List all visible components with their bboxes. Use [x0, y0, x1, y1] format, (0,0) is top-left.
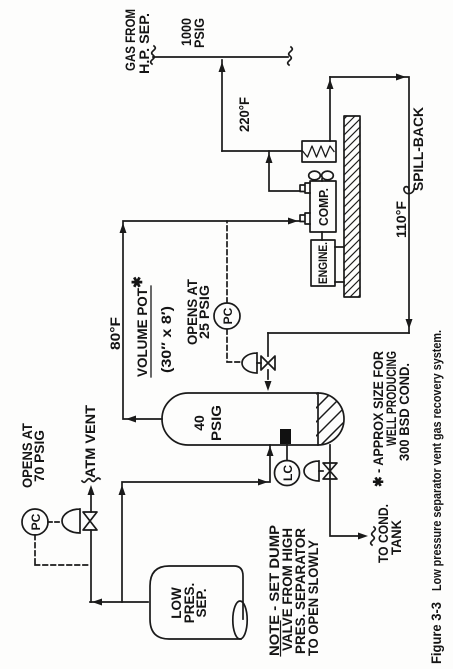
svg-text:40: 40	[191, 415, 207, 431]
shaft engine to compressor	[321, 232, 323, 240]
wire cooler outlet	[329, 77, 331, 141]
equipment ENGINE box	[311, 240, 335, 286]
svg-text:SPILL-BACK: SPILL-BACK	[411, 107, 426, 191]
equipment COMP box	[310, 181, 336, 232]
arrow down on spill-back drop	[396, 74, 406, 81]
wire gas line from riser to drum inlet	[122, 445, 270, 602]
svg-text:Figure 3-3: Figure 3-3	[429, 602, 444, 664]
arrow down into compressor suction	[288, 218, 298, 225]
wire vent line after valve	[90, 495, 92, 512]
wire LC1 stem to nozzle	[286, 444, 288, 461]
dashed signal PC2 to spill valve	[227, 330, 241, 363]
arrow right on gas line top run	[119, 485, 126, 495]
svg-text:220°F: 220°F	[237, 97, 252, 132]
svg-text:PC: PC	[221, 307, 235, 324]
actuator dome on PV1	[62, 509, 80, 533]
wire to HP header	[221, 60, 223, 151]
break squiggle on vent outlet	[82, 478, 100, 482]
svg-text:TANK: TANK	[389, 520, 404, 555]
valve PV2 body	[261, 356, 275, 370]
arrow vent to atmosphere	[88, 485, 95, 495]
wire spill-back run	[330, 77, 409, 333]
vessel V2 head chord	[317, 393, 319, 445]
wire cooler feed riser	[222, 150, 302, 152]
instrument PC2 pressure controller circle	[214, 303, 240, 329]
dashed signal PC1 to vent pipe tap	[35, 535, 90, 565]
arrow down to condensate tank	[358, 533, 368, 540]
arrow right before corner of volume pot loop	[120, 223, 127, 233]
header line to HP SEP	[153, 56, 288, 58]
wire spill riser	[268, 332, 409, 334]
wire spill line into drum	[267, 333, 269, 379]
engine mounting legs	[335, 247, 344, 282]
svg-text:TO OPEN SLOWLY: TO OPEN SLOWLY	[306, 540, 321, 656]
svg-text:Low pressure separator vent ga: Low pressure separator vent gas recovery…	[429, 330, 444, 591]
wire condensate dump line	[330, 445, 358, 536]
svg-text:PC: PC	[29, 513, 43, 530]
svg-text:✱: ✱	[129, 276, 145, 288]
valve LV1 stem	[319, 470, 323, 472]
vessel V1 bottom rim ellipse	[233, 601, 247, 639]
svg-text:ENGINE.: ENGINE.	[318, 242, 330, 284]
svg-text:(30″ x 8′): (30″ x 8′)	[159, 306, 174, 373]
wire volume pot loop: drum top to compressor suction	[123, 221, 300, 419]
svg-text:COMP.: COMP.	[317, 188, 331, 226]
svg-text:25 PSIG: 25 PSIG	[197, 285, 212, 339]
cooler coil zigzag	[303, 146, 334, 157]
valve LV1 body	[323, 463, 337, 479]
svg-text:LC: LC	[281, 465, 295, 481]
svg-text:80°F: 80°F	[108, 317, 123, 350]
instrument LC1 level controller circle	[275, 461, 300, 486]
vessel V1 LOW PRES SEP shell	[150, 566, 243, 639]
vessel V2 hatched bottom head	[300, 378, 360, 464]
instrument PC1 pressure controller circle	[22, 509, 48, 535]
valve LV1 dump valve actuator dome	[304, 461, 319, 481]
break squiggle bottom of header	[288, 47, 293, 65]
wire vent line to valve	[90, 530, 92, 602]
svg-text:PSIG: PSIG	[208, 405, 224, 441]
break squiggle on condensate line	[371, 527, 376, 545]
valve PV2 spill valve actuator dome	[242, 353, 257, 373]
svg-text:VOLUME POT: VOLUME POT	[135, 287, 150, 377]
underline of NOTE	[280, 621, 282, 656]
svg-text:PSIG: PSIG	[192, 18, 207, 48]
skid ground hatched bar	[344, 116, 360, 297]
valve PV2 stem	[257, 362, 261, 364]
break squiggle top of header	[151, 46, 156, 64]
arrow right into header	[219, 62, 226, 72]
svg-text:H.P. SEP.: H.P. SEP.	[137, 13, 152, 74]
compressor discharge wire to cooler feed	[269, 151, 300, 191]
cooler fan blades	[321, 179, 323, 181]
vessel V2 40 PSIG drum shell	[162, 393, 344, 445]
arrow right on cooler outlet	[327, 79, 334, 89]
underline of VOLUME POT	[150, 286, 152, 377]
valve PV1 vent control valve body	[83, 512, 97, 530]
arrow up on vent riser	[92, 599, 102, 606]
svg-text:ATM VENT: ATM VENT	[83, 404, 98, 478]
arrow right on discharge	[266, 153, 273, 163]
dashed signal PC2 to suction line tap	[226, 221, 228, 303]
compressor cylinder stubs	[300, 213, 310, 224]
arrow left on spill-back run	[406, 319, 413, 329]
arrow right into drum inlet	[267, 446, 274, 456]
svg-text:110°F: 110°F	[394, 201, 409, 238]
dashed signal PC1 to dome	[48, 521, 62, 523]
svg-text:SEP.: SEP.	[194, 588, 209, 617]
arrow up on drum gas outlet	[126, 416, 136, 423]
svg-text:300 BSD COND.: 300 BSD COND.	[397, 363, 412, 461]
curl tag on spill-back line	[404, 187, 414, 194]
equipment cooler box	[302, 141, 336, 162]
wire vent riser from V1 top	[90, 601, 148, 603]
arrow left into drum	[265, 381, 272, 391]
svg-text:70 PSIG: 70 PSIG	[32, 430, 47, 482]
nozzle level bridle (solid) on drum wall	[280, 429, 291, 444]
arrow down on gas line drop	[258, 479, 268, 486]
svg-text:GAS FROM: GAS FROM	[123, 9, 138, 71]
